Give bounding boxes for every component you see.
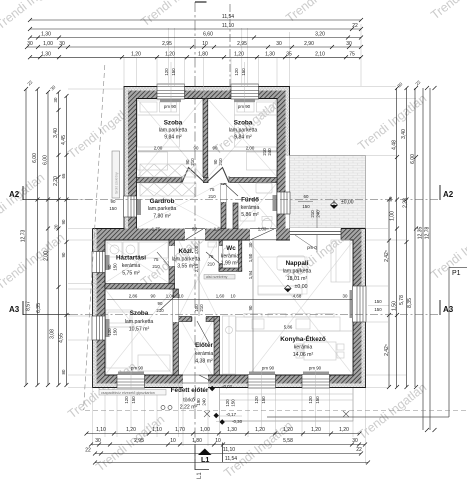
top dim texts row3	[41, 32, 325, 38]
door Szoba2	[207, 168, 230, 184]
wall edge outlines	[93, 87, 366, 388]
svg-text:120: 120	[124, 396, 129, 404]
svg-text:1,30: 1,30	[41, 32, 51, 38]
svg-text:1,10: 1,10	[96, 427, 106, 433]
label Wc	[221, 245, 240, 267]
svg-text:150: 150	[109, 206, 117, 211]
svg-text:1,94: 1,94	[248, 270, 253, 279]
svg-text:12,35: 12,35	[418, 227, 424, 240]
svg-text:L1: L1	[197, 472, 203, 479]
dimension ticks left chains	[24, 87, 69, 387]
svg-text:1,20: 1,20	[234, 51, 244, 57]
label Kozl	[172, 248, 201, 270]
svg-text:240: 240	[267, 148, 272, 156]
dimension ticks top	[25, 18, 363, 59]
svg-text:Szoba: Szoba	[130, 310, 149, 317]
svg-text:2,90: 2,90	[304, 41, 314, 47]
room cross Szoba3	[105, 289, 173, 375]
svg-text:90: 90	[194, 146, 199, 151]
desk Szoba3	[138, 355, 170, 371]
bottom extension lines	[93, 370, 366, 464]
window W4 upper-right (Furdo)	[277, 192, 290, 214]
bed Szoba1	[138, 100, 180, 170]
svg-text:150: 150	[231, 399, 236, 407]
washer Haztartasi	[107, 242, 122, 257]
svg-text:pm 90: pm 90	[164, 104, 177, 109]
left extension lines	[28, 89, 124, 388]
svg-text:Trendi Ingatlan: Trendi Ingatlan	[93, 412, 167, 474]
interior wall: Wc left	[219, 240, 222, 271]
svg-text:kerámia: kerámia	[122, 263, 141, 269]
svg-text:6,60: 6,60	[203, 32, 213, 38]
top dim row3 line	[30, 37, 361, 39]
interior wall: below Haztartasi	[105, 284, 175, 290]
bottom dim texts rowA	[96, 427, 349, 433]
svg-text:3,08: 3,08	[50, 329, 56, 339]
svg-text:lam.parketta: lam.parketta	[283, 269, 312, 275]
interior wall: Gardrob right wall	[221, 183, 226, 229]
svg-text:1,80: 1,80	[198, 51, 208, 57]
cabinet label box under Wc	[204, 275, 235, 280]
interior wall: Eloter top-left stub	[179, 317, 192, 322]
svg-text:Nappali: Nappali	[286, 260, 309, 267]
door Gardrob-Furdo	[221, 185, 238, 202]
windows	[92, 84, 366, 388]
section mark top	[195, 1, 207, 3]
entry level markers	[210, 384, 233, 391]
bottom dim rowB line	[91, 444, 365, 446]
svg-text:30: 30	[352, 438, 358, 444]
room cross Furdo	[238, 183, 277, 228]
axis label A2 left	[9, 186, 23, 200]
top dim row2 line	[30, 28, 361, 30]
svg-text:65: 65	[61, 173, 66, 178]
svg-text:Előtér: Előtér	[195, 342, 213, 349]
left chain lines	[26, 89, 67, 385]
svg-text:Háztartási: Háztartási	[116, 255, 146, 262]
svg-text:150: 150	[374, 307, 382, 312]
svg-text:75: 75	[210, 187, 215, 192]
label Nappali	[283, 260, 312, 290]
radiator W3	[137, 199, 141, 215]
svg-text:Szoba: Szoba	[234, 120, 253, 127]
dimension ticks bottom	[85, 432, 371, 465]
svg-text:1,20: 1,20	[339, 427, 349, 433]
svg-text:90: 90	[158, 301, 163, 306]
svg-text:240: 240	[316, 210, 321, 218]
svg-text:P1: P1	[452, 270, 461, 277]
svg-text:210: 210	[310, 210, 315, 218]
svg-text:1,75: 1,75	[152, 227, 161, 232]
svg-text:lam.parketta: lam.parketta	[159, 128, 188, 134]
bottom dim rowD line	[95, 462, 368, 464]
bottom dim rowC line	[95, 453, 361, 455]
svg-text:kerámia: kerámia	[221, 254, 240, 260]
axis label A3 left	[9, 301, 23, 315]
top dim row5 line	[30, 56, 361, 58]
svg-text:80: 80	[388, 196, 393, 201]
svg-text:kerámia: kerámia	[294, 345, 313, 351]
L1 section marker bottom	[195, 443, 223, 480]
svg-text:90: 90	[213, 146, 218, 151]
interior wall: Furdo partition stub	[233, 203, 238, 229]
svg-text:Wc: Wc	[226, 245, 236, 252]
svg-text:30: 30	[248, 242, 253, 247]
svg-text:1,50: 1,50	[392, 301, 398, 311]
center axis vertical top	[229, 4, 231, 98]
svg-text:210: 210	[199, 304, 204, 312]
interior wall: Eloter right wall	[214, 317, 220, 376]
exterior wall: upper block top wall	[124, 87, 290, 91]
svg-text:12,78: 12,78	[425, 227, 431, 240]
door Szoba3	[160, 298, 179, 322]
svg-text:150: 150	[241, 68, 246, 76]
svg-text:Fürdő: Fürdő	[241, 197, 259, 204]
svg-text:30: 30	[59, 41, 65, 47]
exterior wall: lower block top wall band	[93, 229, 366, 241]
interior wall: bedrooms / Gardrob-Furdo separator	[137, 178, 278, 183]
svg-text:4,55: 4,55	[59, 333, 65, 343]
svg-text:150: 150	[261, 396, 266, 404]
svg-text:Trendi Ingatlan: Trendi Ingatlan	[355, 380, 429, 442]
window W1 top (Szoba1)	[157, 84, 185, 99]
svg-text:3,55 m²: 3,55 m²	[177, 264, 195, 270]
svg-text:60: 60	[304, 194, 309, 199]
sofa Nappali	[258, 240, 350, 295]
window W8 bottom (Konyha left)	[248, 375, 276, 389]
svg-text:210: 210	[208, 194, 216, 199]
right chain labels (rotated)	[384, 79, 431, 356]
svg-text:törkő: törkő	[183, 398, 195, 404]
svg-text:11,54: 11,54	[225, 456, 237, 462]
svg-text:Konyha-Étkező: Konyha-Étkező	[280, 334, 326, 343]
interior vertical dim Nappali	[252, 241, 254, 373]
svg-text:10: 10	[215, 438, 221, 444]
P1 label right	[449, 268, 467, 418]
svg-text:kerámia: kerámia	[195, 351, 214, 357]
svg-text:2,86: 2,86	[129, 294, 138, 299]
svg-text:lam.parketta: lam.parketta	[148, 206, 177, 212]
svg-text:120: 120	[107, 328, 112, 336]
axis A3 line	[23, 314, 70, 316]
svg-text:3,40: 3,40	[53, 128, 59, 138]
door Szoba1	[182, 168, 204, 184]
svg-text:11,10: 11,10	[223, 447, 235, 453]
svg-text:Fedett előtér: Fedett előtér	[171, 387, 209, 394]
room cross Gardrob	[137, 183, 221, 228]
svg-text:2,20: 2,20	[53, 176, 59, 186]
interior wall: Eloter top-right stub	[206, 317, 220, 322]
bed Szoba3	[106, 310, 132, 368]
svg-text:pm 0: pm 0	[307, 245, 317, 250]
window W2 top (Szoba2)	[231, 84, 259, 99]
svg-text:6,00: 6,00	[32, 153, 38, 163]
exterior wall: upper block left wall	[124, 87, 128, 229]
svg-text:4,38 m²: 4,38 m²	[195, 359, 213, 365]
kitchen counter vertical	[223, 316, 236, 374]
svg-text:pm 90: pm 90	[262, 366, 275, 371]
bottom dim texts rowB	[95, 438, 358, 444]
terrace floor (brick paving)	[290, 156, 366, 229]
window W10 right (Nappali)	[353, 286, 367, 322]
gutter text box bottom left	[99, 390, 166, 396]
svg-text:A3: A3	[9, 305, 20, 314]
room labels	[116, 120, 326, 411]
svg-text:240: 240	[202, 398, 207, 406]
svg-text:1,20: 1,20	[311, 427, 321, 433]
svg-text:150: 150	[113, 263, 118, 271]
site boundary bottom right	[267, 416, 449, 418]
svg-text:11,10: 11,10	[222, 23, 234, 29]
svg-text:1,20: 1,20	[255, 427, 265, 433]
svg-text:Trendi Ingatlan: Trendi Ingatlan	[0, 0, 67, 32]
bottom dim rowA line	[87, 433, 360, 435]
room cross Haztartasi	[105, 241, 169, 283]
svg-text:9,84 m²: 9,84 m²	[234, 135, 252, 141]
exterior wall: lower block left wall	[93, 229, 97, 388]
svg-text:6,35: 6,35	[36, 303, 42, 313]
svg-text:1,70: 1,70	[175, 427, 185, 433]
door opening Kozl-Eloter	[192, 317, 209, 343]
svg-text:4,48: 4,48	[392, 140, 398, 150]
svg-text:10: 10	[202, 41, 208, 47]
svg-text:1,50: 1,50	[248, 253, 253, 262]
svg-text:120: 120	[234, 68, 239, 76]
svg-text:30: 30	[276, 41, 282, 47]
svg-text:1,00: 1,00	[166, 294, 175, 299]
svg-text:2,00: 2,00	[246, 146, 255, 151]
top dim row1 line	[30, 19, 361, 21]
svg-text:Trendi Ingatlan: Trendi Ingatlan	[428, 220, 467, 282]
svg-text:1,00: 1,00	[200, 427, 210, 433]
svg-text:1,80: 1,80	[192, 438, 202, 444]
radiator W7	[118, 372, 144, 375]
svg-text:22: 22	[26, 79, 33, 86]
label Szoba3	[125, 310, 154, 333]
porch outline	[220, 388, 354, 421]
radiator W9	[303, 372, 329, 375]
door Haztartasi	[157, 246, 175, 266]
svg-text:pm 90: pm 90	[131, 366, 144, 371]
dining table Konyha	[296, 342, 344, 360]
top dim texts row2	[222, 23, 358, 29]
svg-text:10: 10	[170, 438, 176, 444]
svg-text:Trendi Ingatlan: Trendi Ingatlan	[428, 0, 467, 22]
svg-text:6,00: 6,00	[43, 155, 49, 165]
svg-text:10: 10	[231, 294, 236, 299]
window W6 left (Szoba3)	[92, 316, 105, 340]
radiator W2	[234, 100, 255, 103]
svg-text:2,00: 2,00	[154, 146, 163, 151]
svg-text:-0,30: -0,30	[232, 419, 243, 424]
radiator W6	[106, 319, 110, 337]
wardrobe Gardrob	[140, 183, 196, 196]
outline lower block inner	[105, 240, 353, 375]
svg-text:22: 22	[352, 23, 358, 29]
svg-text:90: 90	[61, 252, 66, 257]
porch post marks	[204, 411, 349, 417]
svg-text:9,84 m²: 9,84 m²	[164, 135, 182, 141]
svg-text:8,35: 8,35	[407, 298, 413, 308]
svg-text:120: 120	[164, 68, 169, 76]
svg-text:1,30: 1,30	[41, 51, 51, 57]
svg-text:11,54: 11,54	[222, 14, 234, 20]
svg-text:14,06 m²: 14,06 m²	[293, 352, 314, 358]
meter cabinet outside left wall	[112, 151, 120, 198]
furniture (light grey)	[106, 100, 353, 422]
svg-text:3,20: 3,20	[315, 32, 325, 38]
interior wall: Wc bottom	[219, 268, 242, 271]
toilet Furdo	[262, 217, 272, 230]
svg-text:150: 150	[302, 204, 310, 209]
svg-text:22: 22	[85, 448, 91, 454]
radiator W1	[160, 100, 181, 103]
svg-text:alsó szekrény: alsó szekrény	[206, 275, 228, 279]
svg-text:A2: A2	[9, 190, 20, 199]
right extension lines	[290, 87, 416, 388]
svg-text:5,78: 5,78	[399, 295, 405, 305]
bottom dim texts rowC	[85, 447, 362, 454]
kitchen counter top	[236, 314, 352, 332]
svg-text:lam.parketta: lam.parketta	[229, 128, 258, 134]
svg-text:4,45: 4,45	[61, 135, 67, 145]
svg-text:Trendi Ingatlan: Trendi Ingatlan	[0, 230, 67, 292]
outline upper block inner	[137, 99, 278, 229]
svg-text:8,57: 8,57	[26, 301, 32, 311]
level marker Nappali	[285, 285, 292, 292]
svg-text:2,10: 2,10	[315, 51, 325, 57]
radiator W10	[350, 290, 353, 318]
door gap Furdo (from Kozl)	[250, 228, 276, 241]
svg-text:30: 30	[53, 97, 58, 102]
svg-text:1,10: 1,10	[152, 427, 162, 433]
section line L1 vertical	[194, 2, 196, 470]
svg-text:2,42⁵: 2,42⁵	[384, 344, 390, 356]
svg-text:1,20: 1,20	[131, 51, 141, 57]
svg-text:Trendi Ingatlan: Trendi Ingatlan	[0, 170, 47, 232]
top dim texts row4	[27, 41, 352, 47]
svg-text:5,58: 5,58	[283, 438, 293, 444]
svg-text:150: 150	[171, 68, 176, 76]
svg-text:75: 75	[349, 51, 355, 57]
svg-text:tároló szekrény: tároló szekrény	[114, 172, 118, 194]
right chain lines	[389, 88, 430, 430]
door gap Gardrob (from Kozl)	[185, 228, 205, 241]
entrance door (bottom wall)	[183, 375, 213, 389]
window W9 bottom (Konyha right)	[302, 375, 330, 389]
svg-text:1,99 m²: 1,99 m²	[221, 261, 239, 267]
top dim texts row5	[41, 51, 355, 57]
window W3 upper-left (Gardrob)	[124, 196, 137, 217]
svg-text:35: 35	[286, 51, 292, 57]
svg-text:210: 210	[207, 262, 215, 267]
svg-text:±0,00: ±0,00	[341, 200, 354, 206]
svg-text:lam.parketta: lam.parketta	[125, 319, 154, 325]
svg-text:2,00: 2,00	[44, 251, 50, 261]
wc washbasin	[208, 242, 217, 247]
svg-text:30: 30	[27, 41, 33, 47]
svg-text:6,00: 6,00	[410, 154, 416, 164]
svg-text:1,00: 1,00	[43, 41, 53, 47]
svg-text:20: 20	[54, 224, 59, 229]
room cross Nappali-Konyha	[249, 241, 353, 375]
label Konyha	[280, 334, 326, 358]
interior vertical dim Kozl	[198, 241, 200, 317]
svg-text:5,75 m²: 5,75 m²	[122, 271, 140, 277]
window W5 left (Haztartasi)	[92, 252, 105, 273]
room cross Szoba2	[208, 99, 277, 177]
interior wall: Wc right	[239, 240, 242, 271]
room floor cross marks	[105, 99, 353, 375]
dimension ticks right chains	[387, 86, 437, 432]
washbasin Furdo	[256, 183, 272, 193]
svg-text:22: 22	[356, 447, 362, 453]
svg-text:120: 120	[225, 399, 230, 407]
svg-text:pm 90: pm 90	[238, 104, 251, 109]
door Wc	[206, 246, 222, 263]
outline lower block outer	[93, 229, 366, 388]
svg-text:90: 90	[151, 294, 156, 299]
svg-text:5,86: 5,86	[284, 325, 293, 330]
svg-text:1,20: 1,20	[126, 427, 136, 433]
terrace door (Nappali top)	[290, 228, 341, 252]
radiator W4	[273, 195, 277, 211]
svg-text:150: 150	[113, 328, 118, 336]
svg-text:150: 150	[315, 396, 320, 404]
label Gardrob	[148, 198, 177, 220]
door size labels	[152, 148, 272, 313]
svg-text:kerámia: kerámia	[241, 205, 260, 211]
pm 90 labels	[131, 104, 322, 371]
radiator W8	[249, 372, 275, 375]
axis A2 line	[23, 199, 70, 201]
room cross Kozl	[179, 241, 217, 316]
svg-text:7,80 m²: 7,80 m²	[153, 214, 171, 220]
svg-text:1,20: 1,20	[283, 427, 293, 433]
counter Haztartasi	[139, 242, 168, 258]
label Fedett eloter	[171, 387, 209, 411]
top dim row4 line	[27, 46, 361, 48]
room cross Eloter	[182, 322, 212, 375]
svg-text:30: 30	[396, 81, 403, 88]
svg-text:90: 90	[61, 219, 66, 224]
svg-text:1,50: 1,50	[214, 227, 223, 232]
axis label A2 right	[440, 185, 454, 200]
svg-text:2,42⁵: 2,42⁵	[384, 250, 390, 262]
svg-text:±0,00: ±0,00	[295, 284, 308, 290]
exterior wall: lower block right wall	[362, 229, 366, 388]
svg-text:75: 75	[154, 257, 159, 262]
radiators (dark)	[106, 100, 353, 375]
svg-text:-0,17: -0,17	[226, 412, 237, 417]
svg-text:150: 150	[131, 396, 136, 404]
top extension lines	[124, 24, 361, 112]
svg-text:1,20: 1,20	[165, 51, 175, 57]
interior dim texts	[129, 146, 348, 330]
interior wall: between Szoba1 and Szoba2	[203, 99, 208, 183]
label Szoba1	[159, 120, 188, 141]
svg-text:1,60: 1,60	[216, 294, 225, 299]
svg-text:1,80: 1,80	[258, 227, 267, 232]
svg-text:Trendi Ingatlan: Trendi Ingatlan	[283, 0, 357, 25]
interior dim line lower	[107, 299, 352, 301]
exterior wall: upper block right wall	[286, 87, 290, 157]
svg-text:150: 150	[374, 299, 382, 304]
svg-text:210: 210	[218, 158, 223, 166]
svg-text:csapadékvíz elvezető gipszkart: csapadékvíz elvezető gipszkarton	[101, 391, 155, 395]
svg-text:210: 210	[152, 264, 160, 269]
svg-text:10: 10	[179, 294, 184, 299]
